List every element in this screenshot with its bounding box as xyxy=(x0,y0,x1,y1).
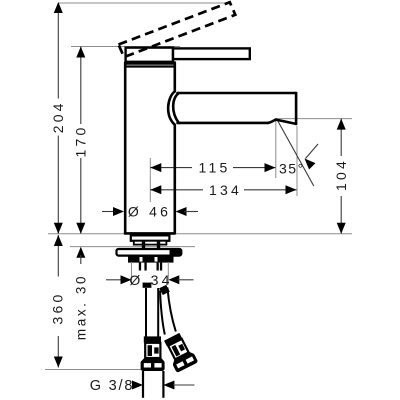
dimension max. 30 xyxy=(74,247,89,340)
vertical connector flare xyxy=(141,357,164,362)
dimension 115 xyxy=(150,160,275,176)
handle lever xyxy=(173,48,250,59)
spout xyxy=(178,93,297,124)
washer dark end xyxy=(170,248,183,256)
svg-text:134: 134 xyxy=(209,182,242,198)
extension line outlet vertical xyxy=(275,121,277,178)
extension line mounting surface xyxy=(48,233,352,235)
svg-text:204: 204 xyxy=(50,100,66,133)
faucet body cylinder xyxy=(125,63,175,234)
extension line top of raised lever xyxy=(58,2,227,4)
supply pipe stubs xyxy=(139,263,162,283)
base ring xyxy=(131,235,170,240)
dimension 134 xyxy=(150,182,296,198)
extension line spout tip vertical xyxy=(296,126,298,196)
angled hose top cap xyxy=(159,285,170,295)
svg-text:360: 360 xyxy=(50,292,66,325)
handle joint ring xyxy=(124,64,176,67)
handle cap xyxy=(126,48,173,62)
extension line panel bottom xyxy=(70,246,195,248)
extension line center axis xyxy=(149,158,151,202)
extension line outlet level xyxy=(275,118,352,120)
extension line hose end level xyxy=(45,369,141,371)
dimension 360 xyxy=(50,235,66,368)
angled connector flare xyxy=(171,350,194,365)
svg-text:Ø 46: Ø 46 xyxy=(128,204,171,220)
G3/8 pipe xyxy=(142,371,144,398)
dimension dia 34 xyxy=(106,271,194,289)
dimension 104 xyxy=(333,119,349,234)
dimension 170 xyxy=(73,47,89,234)
vertical hose walls xyxy=(145,288,147,337)
svg-text:G 3/8: G 3/8 xyxy=(90,378,134,394)
angled collar xyxy=(164,333,182,347)
dimension G 3/8 xyxy=(90,378,195,394)
svg-text:35°: 35° xyxy=(279,161,305,177)
vertical hose top cap xyxy=(143,283,152,288)
raised lever dashed xyxy=(119,2,236,57)
svg-text:104: 104 xyxy=(333,158,349,191)
svg-text:115: 115 xyxy=(199,160,231,176)
angled connector body xyxy=(168,339,188,359)
35 degree leader line xyxy=(277,120,314,187)
mounting nut xyxy=(128,256,174,263)
extension line top of handle xyxy=(71,46,180,48)
mounting washer xyxy=(117,249,182,256)
spout fillet arcs xyxy=(168,91,175,124)
vertical hose connector collar xyxy=(144,336,161,342)
vertical connector end nut xyxy=(141,360,165,371)
svg-text:max. 30: max. 30 xyxy=(74,274,89,340)
base studs xyxy=(142,241,145,249)
dimension dia 46 xyxy=(102,204,198,220)
base plate 2 xyxy=(134,241,167,245)
dia 34 extension lines xyxy=(131,262,133,285)
vertical hose connector body xyxy=(145,343,160,358)
dimension 204 xyxy=(50,2,66,234)
angled connector end nut xyxy=(172,353,198,373)
angled hose connector xyxy=(161,331,198,373)
35 degree leader arrow xyxy=(306,144,319,159)
svg-text:170: 170 xyxy=(73,125,89,158)
angled hose walls xyxy=(160,291,165,335)
